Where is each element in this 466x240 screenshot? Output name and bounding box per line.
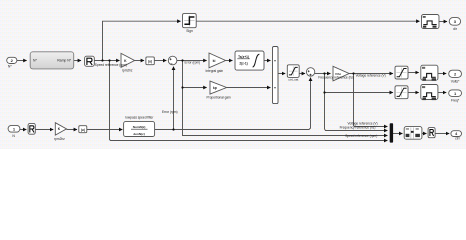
svg-text:Speed reference (rpm): Speed reference (rpm) xyxy=(345,134,377,138)
junction sign branch xyxy=(101,59,103,61)
svg-text:Frequency reference (hz): Frequency reference (hz) xyxy=(318,75,354,79)
wire feedback up to sum1 bottom xyxy=(173,67,175,130)
svg-text:Ramp N*: Ramp N* xyxy=(57,59,71,63)
wire sum1 to ki gain (error) xyxy=(177,60,207,62)
junction frequency branch xyxy=(323,72,325,74)
wire D to outport Freq xyxy=(438,92,446,94)
svg-text:ctrl_sat: ctrl_sat xyxy=(288,77,298,81)
svg-text:|u|: |u| xyxy=(81,128,85,132)
saturation C frequency xyxy=(395,86,408,99)
saturation ctrl_sat xyxy=(287,65,299,82)
wire R2 to rpm2hz gain 2 xyxy=(35,129,53,131)
gain kp xyxy=(207,81,231,99)
svg-text:Error (rpm): Error (rpm) xyxy=(162,110,178,114)
svg-text:Freq*: Freq* xyxy=(451,98,460,102)
wire frequency branch down to mux xyxy=(325,74,388,131)
lowpass speed filter xyxy=(124,116,155,137)
junction error branch xyxy=(181,59,183,61)
wire satC to rate block D xyxy=(408,92,419,94)
wire error branch to kp xyxy=(183,87,207,89)
wire ctrl_sat to sum2 xyxy=(299,73,305,75)
wire add to ctrl_sat xyxy=(278,73,285,75)
gain rpm2hz (bottom) xyxy=(54,123,66,141)
wire abs to sum1 xyxy=(154,60,166,62)
wire R1 to rpm2hz gain (speed reference) xyxy=(94,60,119,62)
outport 2 Volts* xyxy=(449,70,462,83)
discrete integrator xyxy=(235,51,264,70)
sum1 error junction xyxy=(168,56,177,65)
svg-text:Voltage reference (V): Voltage reference (V) xyxy=(356,74,386,78)
wire mux to block E xyxy=(393,133,403,135)
junction voltage branch xyxy=(352,72,354,74)
svg-text:Integral gain: Integral gain xyxy=(206,69,224,73)
svg-text:Speed reference (rpm): Speed reference (rpm) xyxy=(95,63,127,67)
wire Sign to top-right rate transition xyxy=(196,20,419,22)
wire Ramp to rate limiter R1 xyxy=(74,60,81,62)
wire sum2 to V/hz gain xyxy=(315,73,331,75)
rate transition D xyxy=(421,85,438,101)
svg-text:rpm2hz: rpm2hz xyxy=(122,68,133,72)
wire error branch down xyxy=(183,61,388,136)
wire filter output feedback to sum2 bottom xyxy=(155,78,311,130)
wire branch up to Sign block xyxy=(103,21,181,60)
wire gain to abs xyxy=(135,60,144,62)
wire satA to rate block B xyxy=(408,72,419,74)
svg-text:Voltage reference (V): Voltage reference (V) xyxy=(348,121,378,125)
wire abs2 to lowpass filter xyxy=(87,129,123,131)
gain V/hz xyxy=(333,66,349,81)
svg-text:denN(z): denN(z) xyxy=(133,132,144,136)
wire N* input to Ramp xyxy=(17,60,27,62)
wire N input to rate limiter R2 xyxy=(20,129,26,131)
rate transition G (top right) xyxy=(422,15,440,29)
svg-text:N*: N* xyxy=(8,64,12,68)
inport 1 N xyxy=(8,125,20,137)
svg-text:rpm2hz: rpm2hz xyxy=(54,137,65,141)
wire rate transition to outport dir xyxy=(439,21,447,23)
block F (rate) xyxy=(428,128,435,138)
svg-text:ki: ki xyxy=(213,59,216,63)
wire V/hz to saturation A (voltage) xyxy=(349,73,393,75)
signal labels xyxy=(95,61,386,139)
outport 4 ctrl xyxy=(451,131,462,141)
wire E to F xyxy=(422,133,427,135)
background grid xyxy=(0,0,466,149)
sum2 slip+speed xyxy=(306,68,314,76)
mux xyxy=(390,124,393,143)
abs |u| (top) xyxy=(146,57,154,65)
svg-text:ctrl: ctrl xyxy=(455,137,460,141)
abs |u| (bottom) xyxy=(79,126,87,133)
wire kp to add xyxy=(227,87,271,89)
svg-text:Error (rpm): Error (rpm) xyxy=(185,61,201,65)
junction feedback branch xyxy=(172,128,174,130)
wire voltage branch down to mux xyxy=(354,74,388,127)
rate limiter R2 xyxy=(28,123,35,134)
svg-text:Ts(z+1): Ts(z+1) xyxy=(238,55,249,59)
svg-text:Frequency reference (hz): Frequency reference (hz) xyxy=(340,126,376,130)
junction frequency row branch xyxy=(323,91,325,93)
rate limiter R1 xyxy=(85,56,95,66)
outport 3 dir xyxy=(449,18,460,31)
add block (tall rectangle) xyxy=(273,47,279,104)
svg-text:Proportional gain: Proportional gain xyxy=(207,95,231,99)
wire F to outport ctrl xyxy=(435,133,449,135)
svg-text:Sign: Sign xyxy=(186,29,193,33)
wire frequency branch to saturation C xyxy=(325,92,393,94)
svg-text:lowpass speed filter: lowpass speed filter xyxy=(125,116,154,120)
subsystem Ramp N* xyxy=(30,52,73,69)
wire B to outport Volts xyxy=(438,73,446,75)
block E (controls grouping) xyxy=(404,127,422,140)
wire speed reference down to mux xyxy=(110,61,388,141)
sign block xyxy=(183,14,197,33)
junction kp branch xyxy=(181,86,183,88)
saturation A voltage xyxy=(395,66,408,79)
svg-text:2(z-1): 2(z-1) xyxy=(239,61,247,65)
wire integrator to add xyxy=(264,60,270,62)
svg-text:kp: kp xyxy=(213,86,217,90)
svg-text:|u|: |u| xyxy=(148,60,152,64)
gain ki xyxy=(206,53,226,73)
rate transition B xyxy=(421,65,438,81)
junction speed reference branch xyxy=(108,59,110,61)
wire gain2 to abs2 xyxy=(67,129,78,131)
svg-text:NumN(z): NumN(z) xyxy=(133,125,146,129)
svg-text:Volts*: Volts* xyxy=(451,80,460,84)
wire ki to integrator xyxy=(226,60,233,62)
inport 2 N* xyxy=(7,57,17,68)
outport 1 Freq* xyxy=(449,90,462,103)
gain rpm2hz (top) xyxy=(121,53,135,72)
